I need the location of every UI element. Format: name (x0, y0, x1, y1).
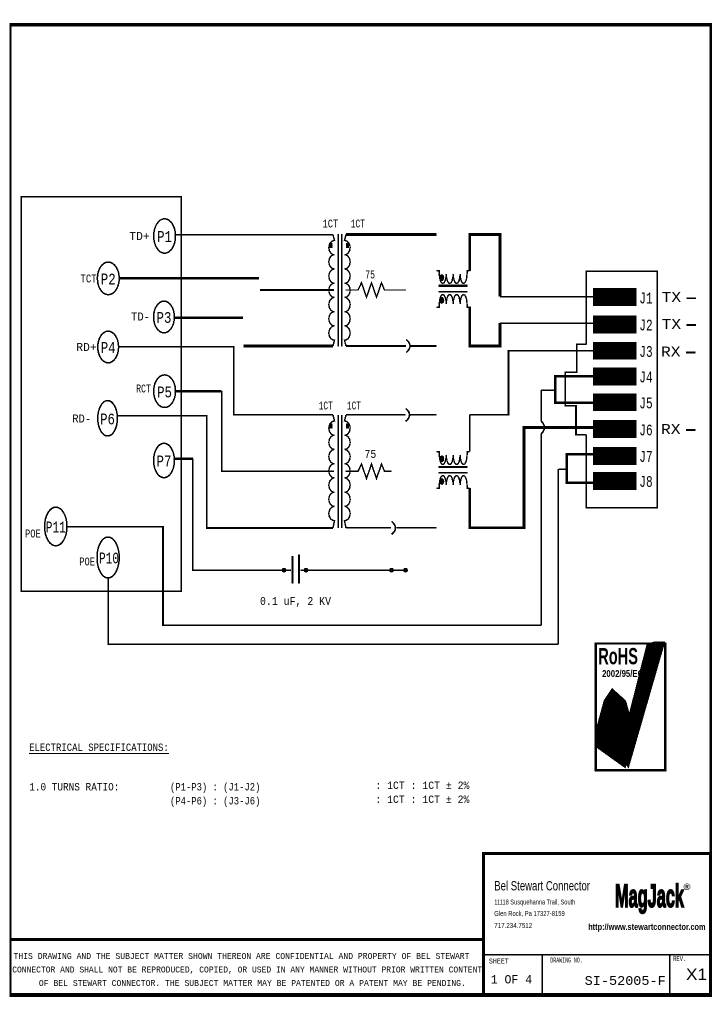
svg-text:J7: J7 (639, 449, 652, 468)
svg-text:P4: P4 (101, 340, 116, 359)
svg-text:J4: J4 (639, 370, 652, 389)
svg-text:TCT: TCT (80, 272, 96, 286)
svg-text:REV.: REV. (673, 956, 686, 964)
svg-text:®: ® (684, 882, 691, 893)
svg-text:RoHS: RoHS (598, 643, 638, 670)
svg-text:TD+: TD+ (129, 230, 149, 244)
svg-text:P6: P6 (100, 411, 115, 430)
svg-text:1CT: 1CT (319, 400, 333, 414)
svg-text:1.0 TURNS RATIO:: 1.0 TURNS RATIO: (29, 783, 119, 795)
svg-text:J1: J1 (639, 290, 652, 309)
svg-text:J8: J8 (639, 474, 652, 493)
svg-text:P11: P11 (46, 520, 66, 539)
svg-text:OF BEL STEWART CONNECTOR. THE: OF BEL STEWART CONNECTOR. THE SUBJECT MA… (39, 978, 466, 989)
svg-text:J6: J6 (639, 422, 652, 441)
svg-text:POE: POE (25, 527, 41, 541)
svg-text:75: 75 (365, 269, 375, 283)
svg-text:P5: P5 (157, 384, 172, 403)
svg-text:http://www.stewartconnector.co: http://www.stewartconnector.com (588, 922, 706, 932)
svg-text:MagJack: MagJack (615, 878, 684, 914)
svg-text:ELECTRICAL SPECIFICATIONS:: ELECTRICAL SPECIFICATIONS: (29, 743, 169, 755)
svg-text:(P4-P6) : (J3-J6): (P4-P6) : (J3-J6) (170, 796, 260, 808)
svg-text:717.234.7512: 717.234.7512 (494, 921, 532, 930)
svg-text:P1: P1 (157, 229, 172, 248)
svg-text:1CT: 1CT (347, 400, 361, 414)
svg-text:Bel Stewart Connector: Bel Stewart Connector (494, 878, 590, 893)
svg-text:THIS DRAWING AND THE SUBJECT M: THIS DRAWING AND THE SUBJECT MATTER SHOW… (14, 951, 470, 962)
svg-text:0.1 uF, 2 KV: 0.1 uF, 2 KV (260, 596, 331, 609)
svg-text:TX: TX (662, 291, 682, 307)
svg-text:J2: J2 (639, 318, 652, 337)
svg-text:P2: P2 (101, 272, 116, 291)
svg-text:TD-: TD- (131, 311, 150, 325)
svg-text:P3: P3 (157, 310, 172, 329)
svg-text:11118 Susquehanna Trail, South: 11118 Susquehanna Trail, South (494, 897, 575, 906)
svg-text:1CT: 1CT (351, 218, 365, 232)
svg-text:X1: X1 (686, 965, 707, 984)
svg-text:J5: J5 (639, 395, 652, 414)
svg-text:J3: J3 (639, 344, 652, 363)
svg-text:: 1CT : 1CT ± 2%: : 1CT : 1CT ± 2% (375, 781, 469, 793)
svg-text:P10: P10 (99, 551, 119, 570)
svg-text:RX: RX (661, 345, 681, 361)
svg-text:Glen Rock, Pa 17327-8159: Glen Rock, Pa 17327-8159 (494, 909, 564, 918)
svg-text:P7: P7 (157, 454, 172, 473)
svg-text:RCT: RCT (136, 382, 151, 396)
svg-text:DRAWING NO.: DRAWING NO. (550, 958, 583, 966)
svg-text:RX: RX (661, 423, 681, 439)
svg-text:1CT: 1CT (323, 218, 339, 232)
svg-text:2002/95/EC: 2002/95/EC (602, 668, 643, 680)
svg-text:SI-52005-F: SI-52005-F (585, 975, 666, 990)
svg-text:CONNECTOR AND SHALL NOT BE REP: CONNECTOR AND SHALL NOT BE REPRODUCED, C… (12, 964, 482, 975)
svg-text:SHEET: SHEET (489, 959, 509, 967)
svg-text:1 OF 4: 1 OF 4 (491, 972, 533, 987)
svg-text:RD-: RD- (72, 412, 91, 426)
svg-text:: 1CT : 1CT ± 2%: : 1CT : 1CT ± 2% (375, 795, 469, 807)
svg-text:(P1-P3) : (J1-J2): (P1-P3) : (J1-J2) (170, 783, 260, 795)
svg-text:RD+: RD+ (76, 341, 96, 355)
svg-text:TX: TX (662, 318, 682, 334)
svg-text:75: 75 (365, 448, 377, 462)
svg-text:POE: POE (79, 556, 95, 570)
